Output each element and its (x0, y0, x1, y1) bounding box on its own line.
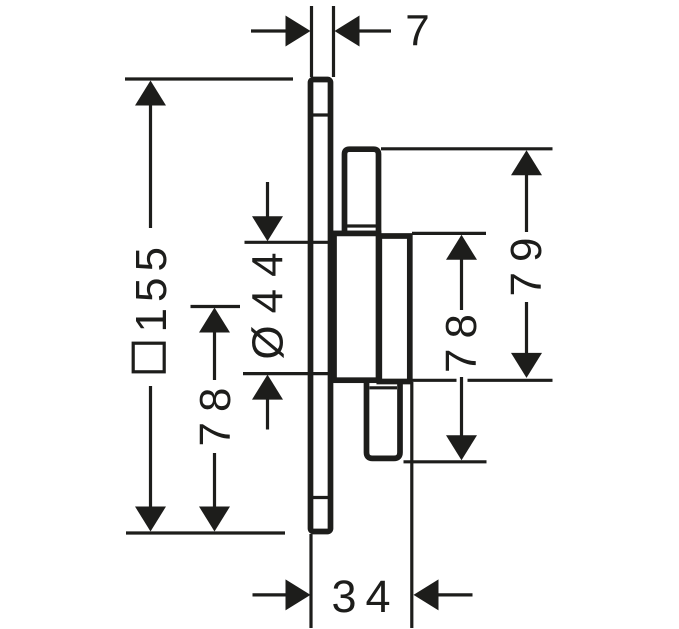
dim 78 left: extension tick (191, 305, 241, 308)
plate seam bottom (312, 496, 329, 499)
label 79 (rotated) (502, 228, 551, 297)
dim 7: left arrowhead (286, 16, 311, 47)
dim square155: bottom arrowhead (135, 507, 166, 532)
dim 78 left: dimension line upper segment (213, 331, 216, 380)
dim 78 right: dimension line upper segment (460, 258, 463, 310)
dim 7: extension line right (332, 6, 335, 77)
svg-text:78: 78 (191, 378, 240, 447)
dim square155: bottom extension line (126, 531, 285, 534)
dim 34: right arrowhead (414, 579, 439, 610)
bottom handle block (367, 379, 401, 458)
center-left body block (334, 233, 379, 380)
dim square155: dimension line lower segment (149, 386, 152, 510)
dim 79: top extension line (381, 147, 553, 150)
dim 79: bottom extension line segment a (412, 379, 457, 382)
dim 34: left extension line (309, 534, 312, 628)
label dia44 (rotated) (244, 240, 293, 359)
dim 79: top arrowhead (511, 150, 542, 175)
label 78 right (rotated) (437, 304, 486, 373)
dim 34: left leader line (253, 593, 288, 596)
dim 79: bottom arrowhead (511, 353, 542, 378)
hole edge line bottom (across plate, extends left as Ø44 extension) (243, 372, 329, 375)
dim dia44: upper arrowhead (points down) (252, 216, 283, 241)
label square155 (rotated) (127, 241, 176, 372)
dim 78 right: dimension line lower segment (460, 377, 463, 437)
plate (escutcheon side view) (311, 80, 331, 532)
dim 78 left: dimension line lower segment (213, 453, 216, 509)
svg-text:34: 34 (331, 571, 399, 622)
dim dia44: lower tail line (266, 398, 269, 430)
dim 79: bottom extension line segment b (468, 379, 553, 382)
plate seam top (312, 113, 329, 116)
dim 7: left leader line (251, 29, 287, 32)
dim dia44: lower arrowhead (points up) (252, 375, 283, 400)
dim 78 right: bottom arrowhead (446, 435, 477, 460)
dim 7: right leader line (359, 29, 391, 32)
dim 7: extension line left (310, 6, 313, 77)
dim square155: top arrowhead (135, 81, 166, 106)
dim 34: left arrowhead (286, 579, 311, 610)
dim 34: right extension line (410, 382, 413, 628)
svg-text:78: 78 (437, 304, 486, 373)
svg-text:79: 79 (502, 228, 551, 297)
dim square155: dimension line upper segment (149, 103, 152, 228)
dim 79: dimension line lower segment (525, 302, 528, 356)
svg-text:7: 7 (405, 7, 436, 56)
top handle seam (347, 224, 376, 227)
dim 79: dimension line upper segment (525, 173, 528, 232)
svg-text:155: 155 (127, 241, 176, 332)
top handle block (345, 149, 379, 235)
dim square155: top extension line (125, 77, 293, 80)
dim 78 right: top extension line (412, 232, 486, 235)
label 78 left (rotated) (191, 378, 240, 447)
bottom handle seam (370, 386, 398, 389)
dim dia44: upper tail line (266, 182, 269, 218)
dim 78 left: bottom arrowhead (199, 507, 230, 532)
dim 78 right: top arrowhead (446, 235, 477, 260)
hole edge line top (across plate, extends left as Ø44 extension) (245, 241, 330, 244)
center-right sleeve block (379, 236, 410, 382)
dim 7: right arrowhead (335, 16, 360, 47)
dim 34: right leader line (438, 593, 472, 596)
dim 78 right: bottom extension line (404, 460, 487, 463)
dim 78 left: top arrowhead (199, 308, 230, 333)
svg-text:Ø44: Ø44 (244, 240, 293, 359)
